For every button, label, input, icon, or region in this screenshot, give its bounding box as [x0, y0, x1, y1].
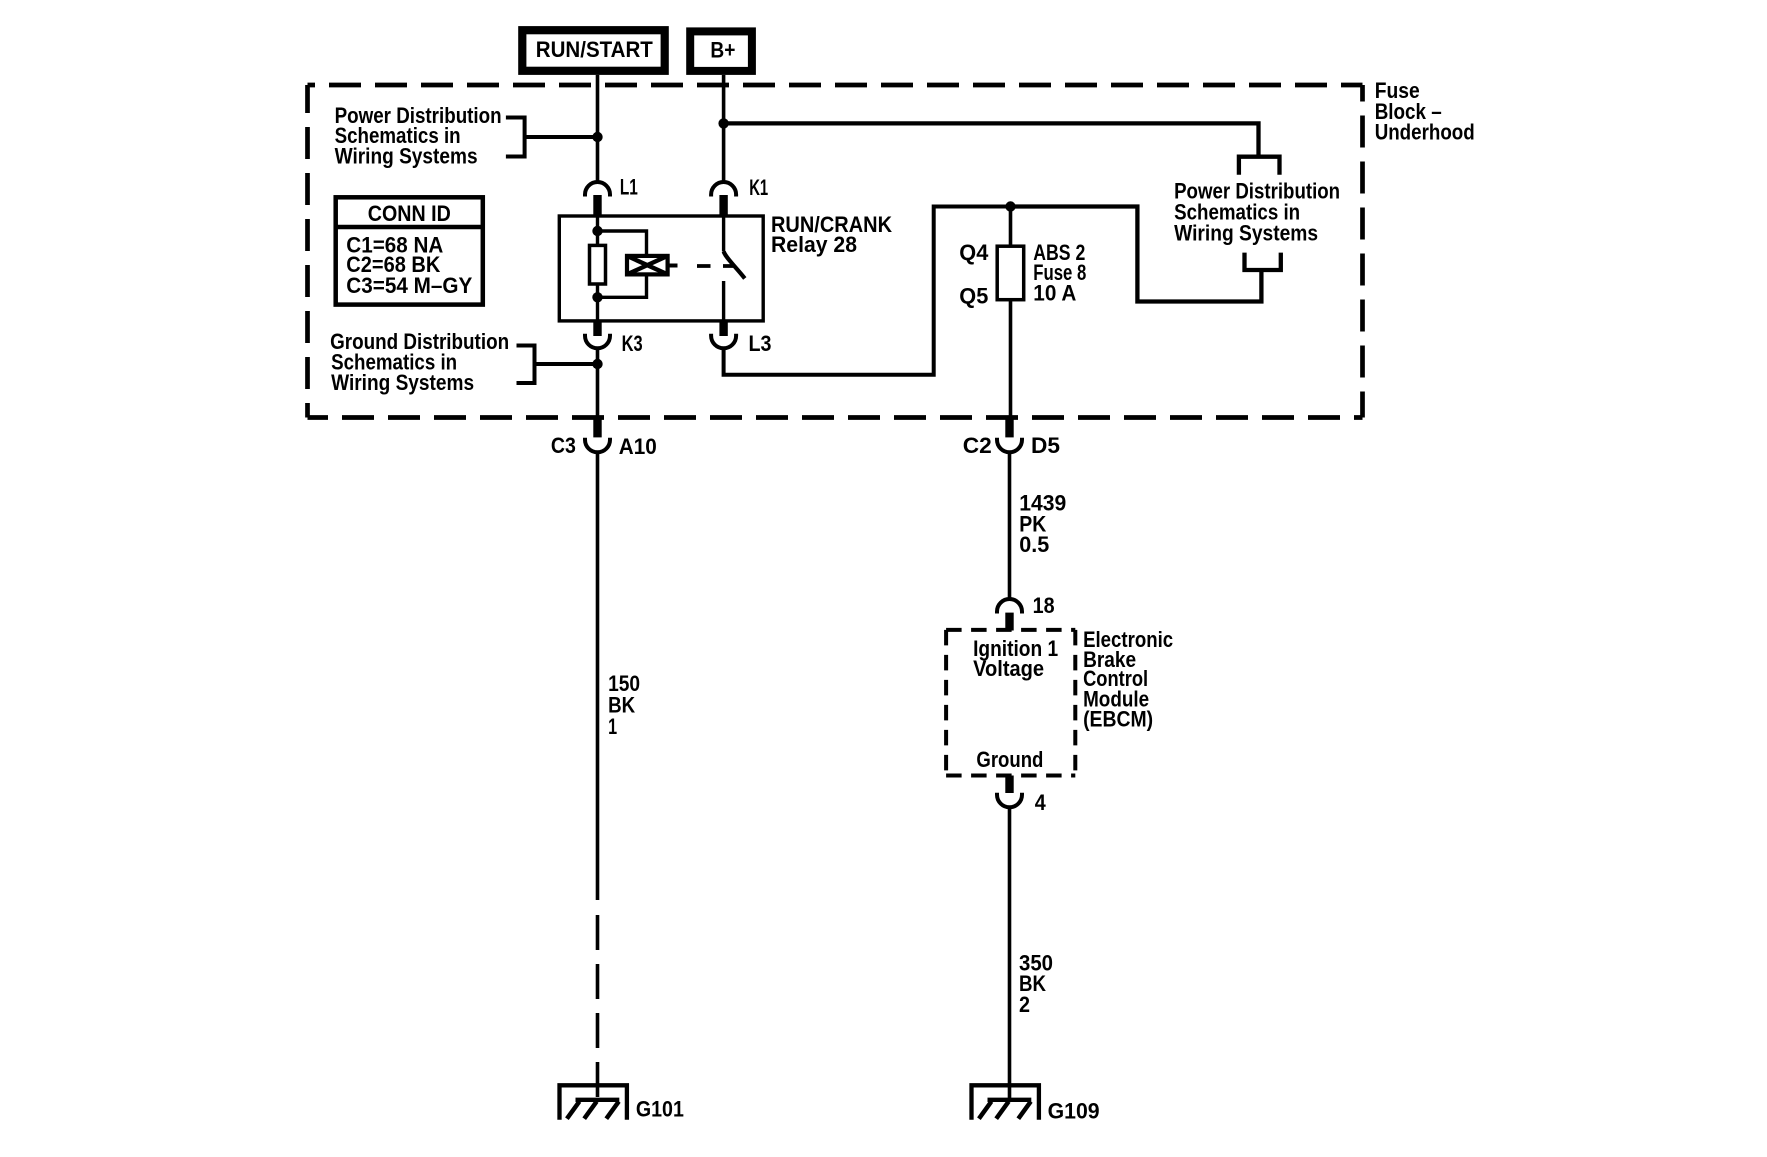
svg-text:0.5: 0.5 [1019, 532, 1049, 557]
svg-text:CONN ID: CONN ID [368, 201, 451, 226]
connector L1 [585, 175, 638, 217]
fuse block underhood dashed boundary [308, 85, 1363, 418]
wire K3 down through fuse block edge [596, 350, 600, 418]
svg-text:Q4: Q4 [959, 240, 989, 265]
label 350 BK 2 [1019, 951, 1053, 1017]
svg-text:Wiring Systems: Wiring Systems [331, 370, 474, 395]
svg-text:Ground: Ground [976, 747, 1043, 772]
wire 350 BK 2 [1008, 807, 1012, 1101]
dashed actuation link [697, 264, 733, 268]
wire B+ junction to right power distribution bracket [724, 123, 1259, 156]
connector K1 [711, 175, 768, 217]
svg-text:L1: L1 [620, 175, 638, 200]
note Ground Distribution Schematics in Wiring Systems [330, 329, 509, 395]
connector C3 A10 [551, 417, 657, 459]
EBCM module dashed box [946, 630, 1075, 776]
bracket top for right power distribution note [1239, 157, 1280, 175]
wire junction down to fuse [1009, 207, 1013, 247]
connector pin 4 [997, 776, 1046, 815]
svg-text:C2: C2 [963, 433, 992, 458]
node coil bottom junction [592, 292, 602, 302]
fuse ABS 2 Fuse 8 10 A [959, 240, 1086, 309]
svg-text:18: 18 [1033, 593, 1055, 618]
ground G101 [560, 1085, 684, 1121]
suppression element box with X [627, 256, 678, 275]
power feed box RUN/START [518, 26, 669, 75]
svg-text:Underhood: Underhood [1375, 120, 1475, 145]
relay coil element [590, 245, 606, 284]
svg-text:Q5: Q5 [959, 283, 988, 308]
wire fuse down through fuse block edge [1009, 300, 1013, 418]
label Electronic Brake Control Module (EBCM) [1083, 627, 1173, 732]
relay box RUN/CRANK Relay 28 [559, 216, 763, 321]
node coil top junction [592, 226, 602, 236]
svg-text:G101: G101 [636, 1097, 684, 1122]
wire parallel branch around coil [598, 231, 647, 297]
svg-text:D5: D5 [1031, 433, 1060, 458]
relay switch terminals [722, 217, 725, 320]
svg-text:C3: C3 [551, 433, 576, 458]
node fuse feed junction [1005, 201, 1015, 211]
connector K3 [585, 321, 643, 356]
connector table CONN ID [336, 197, 483, 304]
wire fuse top to right bracket loop [1011, 207, 1262, 302]
node junction on B+ feed [718, 118, 728, 128]
svg-text:4: 4 [1035, 790, 1047, 815]
bracket for ground distribution note [517, 346, 598, 384]
bracket for left power distribution note [506, 118, 598, 157]
connector pin 18 [997, 593, 1055, 630]
wire 150 BK 1 (dashed part) [596, 901, 600, 1100]
note Power Distribution Schematics in Wiring Systems (left) [335, 103, 502, 169]
svg-text:(EBCM): (EBCM) [1083, 707, 1153, 732]
wire 1439 PK 0.5 [1008, 453, 1012, 600]
svg-text:K1: K1 [749, 175, 768, 200]
svg-text:Relay 28: Relay 28 [771, 232, 857, 257]
svg-text:K3: K3 [622, 331, 643, 356]
label 150 BK 1 [608, 671, 640, 739]
connector C2 D5 [963, 417, 1060, 458]
svg-text:Wiring Systems: Wiring Systems [335, 144, 478, 169]
ground G109 [972, 1085, 1100, 1123]
svg-text:L3: L3 [749, 331, 772, 356]
svg-text:B+: B+ [710, 37, 735, 62]
bracket bottom for right power distribution note [1245, 253, 1281, 270]
wire RUN/START down to L1 [596, 75, 600, 181]
connector L3 [711, 321, 771, 356]
node K3 ground junction [592, 359, 602, 369]
relay coil leads [596, 217, 599, 320]
label 1439 PK 0.5 [1019, 491, 1066, 558]
node junction on RUN/START feed [592, 132, 602, 142]
note Power Distribution Schematics in Wiring Systems (right) [1174, 179, 1340, 246]
wire B+ down to K1 [722, 75, 726, 181]
svg-text:RUN/START: RUN/START [536, 37, 654, 62]
svg-text:G109: G109 [1048, 1099, 1100, 1124]
svg-text:10 A: 10 A [1033, 280, 1076, 305]
svg-text:A10: A10 [619, 434, 657, 459]
power feed box B+ [686, 27, 756, 75]
svg-text:1: 1 [608, 714, 617, 739]
svg-text:2: 2 [1019, 992, 1030, 1017]
label Fuse Block - Underhood [1375, 78, 1475, 144]
svg-text:C3=54 M–GY: C3=54 M–GY [346, 273, 472, 298]
wire 150 BK 1 (solid part) [596, 453, 600, 900]
svg-text:Voltage: Voltage [973, 656, 1044, 681]
relay switch blade [724, 252, 745, 279]
svg-text:Wiring Systems: Wiring Systems [1174, 220, 1318, 245]
wire L3 to fuse ABS2 [724, 207, 1138, 375]
